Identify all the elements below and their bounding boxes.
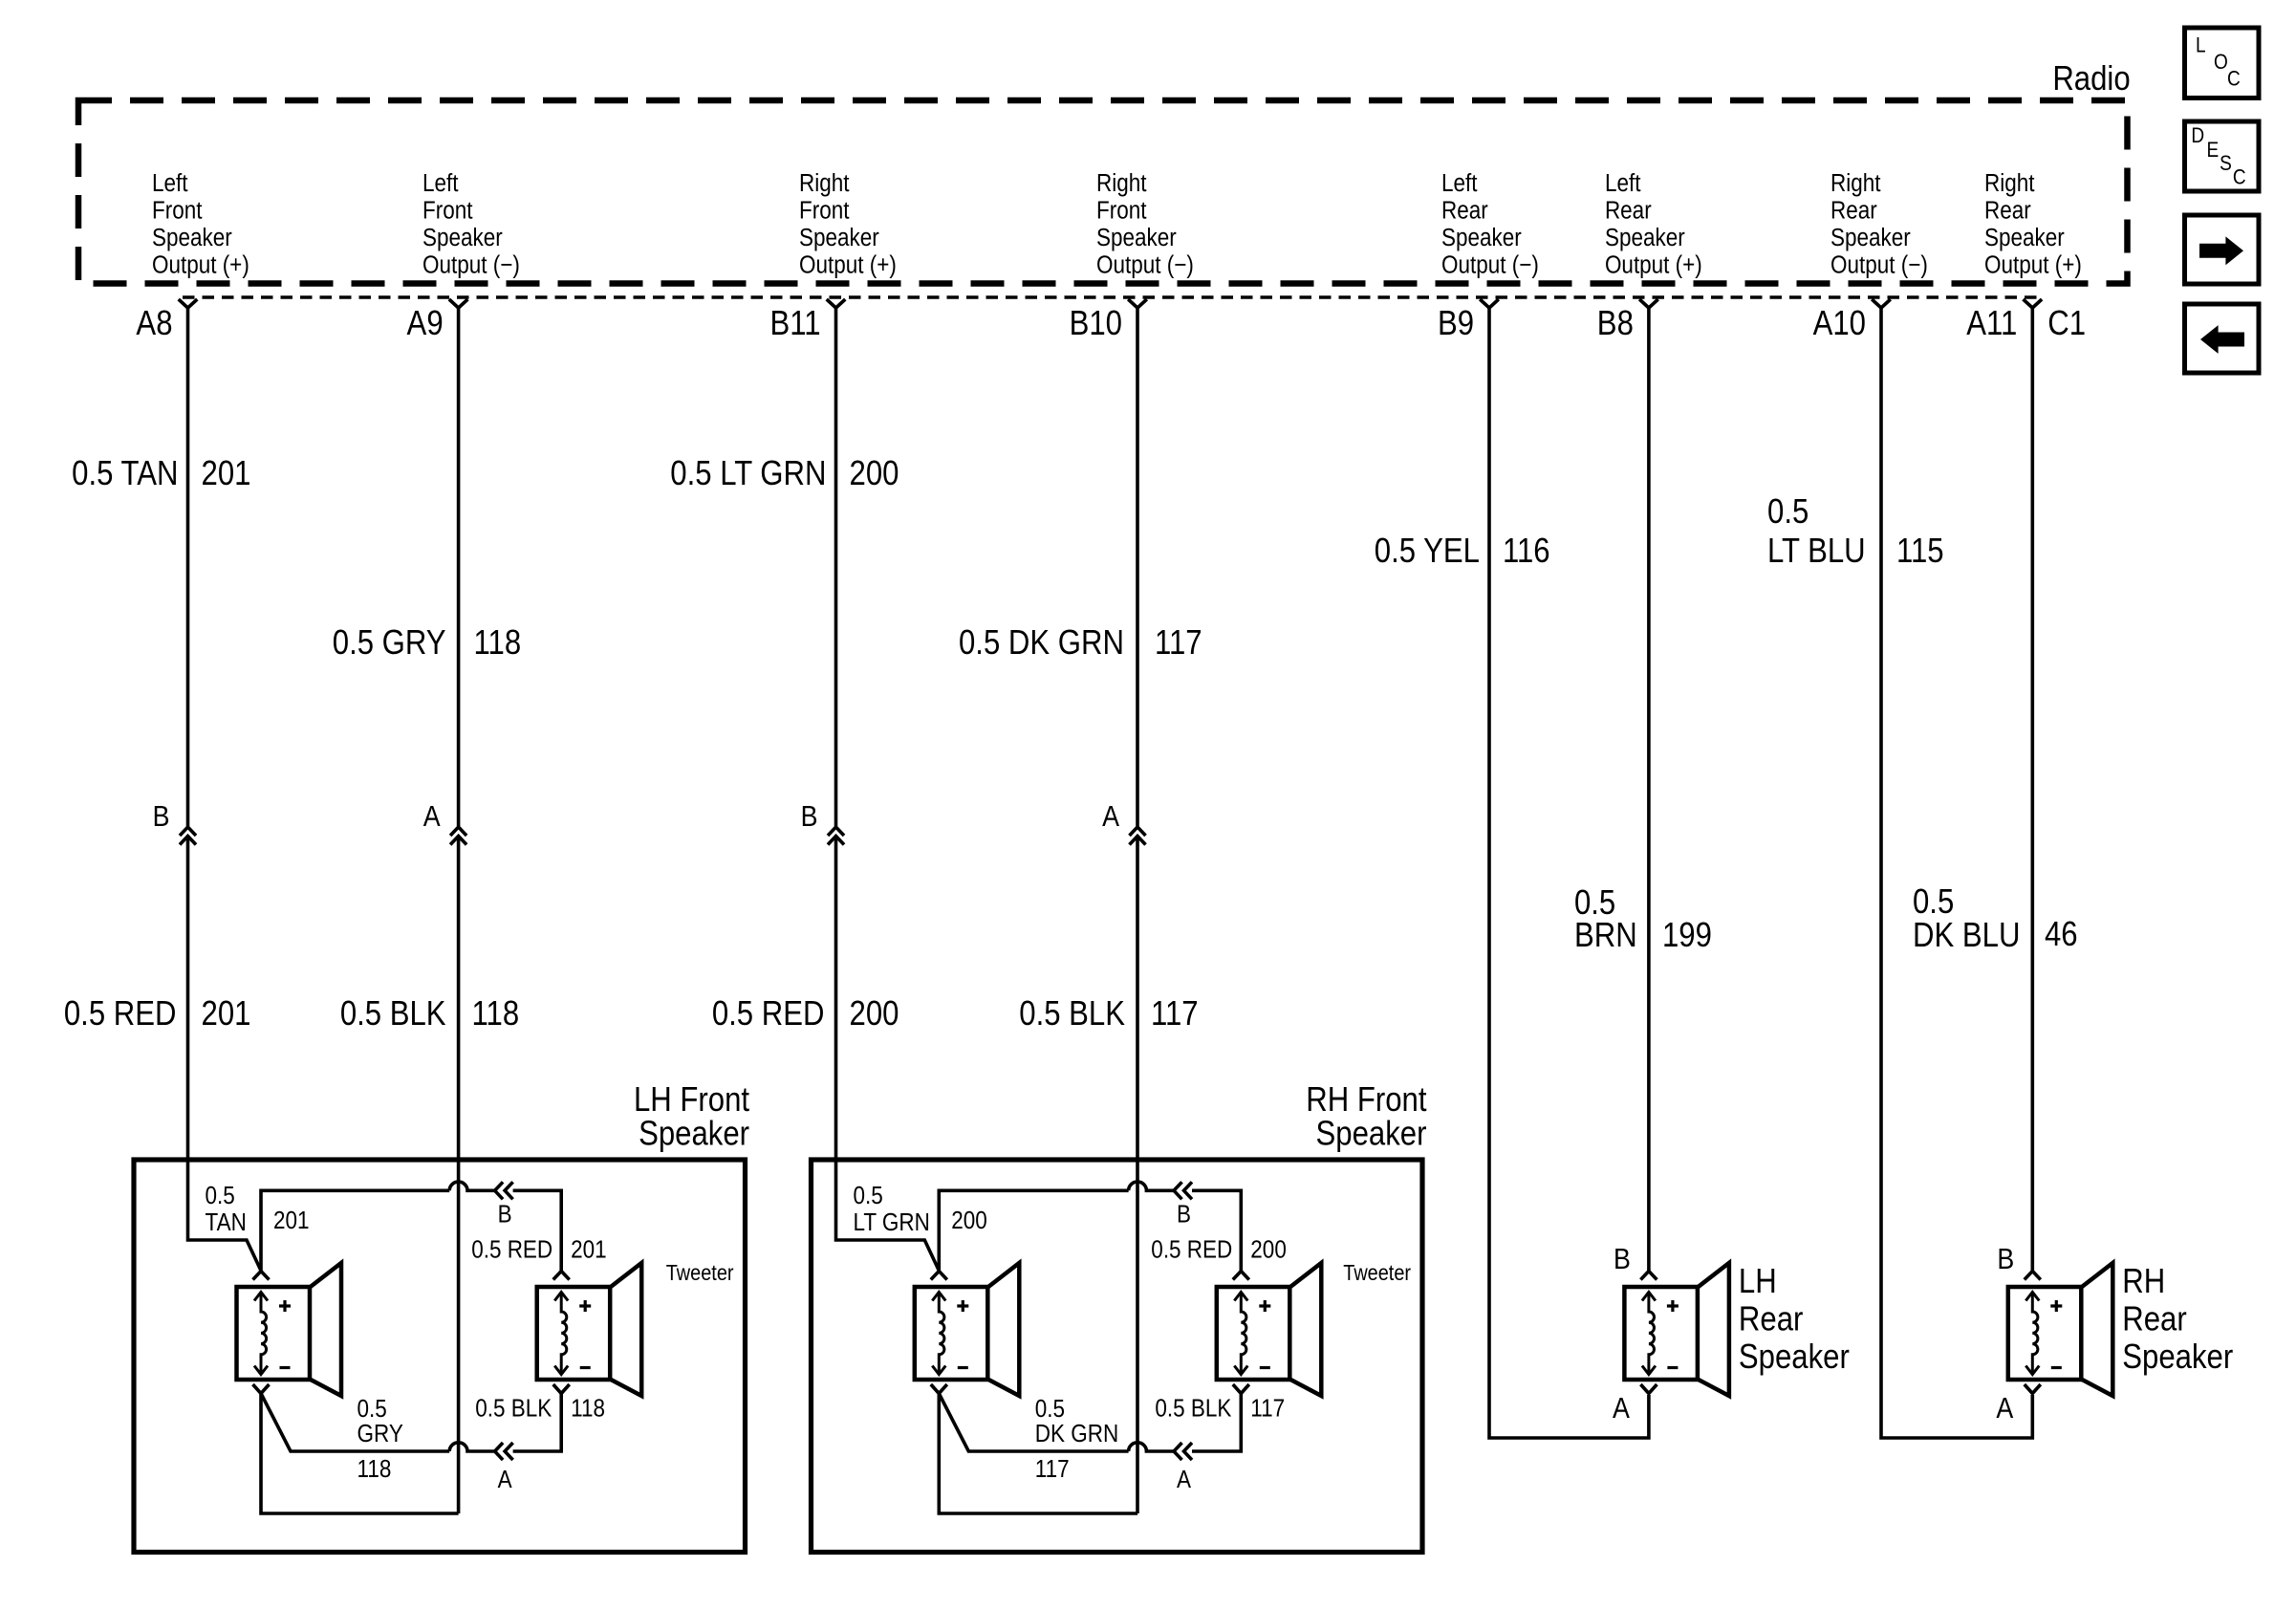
wire B10 lower segment (0.5 BLK 117) xyxy=(1136,838,1139,1513)
svg-text:B: B xyxy=(1177,1201,1191,1229)
wire B11 upper segment (0.5 LT GRN 200) xyxy=(834,308,838,827)
svg-text:Speaker: Speaker xyxy=(1739,1338,1850,1377)
wire B10 upper segment (0.5 DK GRN 117) xyxy=(1136,308,1139,827)
svg-text:117: 117 xyxy=(1250,1395,1285,1423)
svg-text:0.5 BLK: 0.5 BLK xyxy=(340,995,446,1033)
terminal B label (RH rear) xyxy=(1997,1243,2014,1275)
svg-text:DK GRN: DK GRN xyxy=(1035,1421,1118,1448)
svg-text:B: B xyxy=(801,800,818,833)
svg-text:RH: RH xyxy=(2122,1263,2165,1301)
svg-text:B9: B9 xyxy=(1438,305,1474,343)
pin A11 (fork terminal + label) xyxy=(1966,299,2042,343)
svg-text:0.5: 0.5 xyxy=(357,1396,387,1424)
label 0.5 YEL 116 xyxy=(1375,533,1550,571)
svg-text:46: 46 xyxy=(2045,916,2078,954)
svg-text:Speaker: Speaker xyxy=(152,225,232,252)
label 0.5 TAN 201 xyxy=(72,455,250,493)
svg-text:0.5: 0.5 xyxy=(1913,883,1954,922)
wire B11 lower segment (0.5 RED 200) xyxy=(836,838,940,1271)
svg-text:A8: A8 xyxy=(136,305,172,343)
label 0.5 TAN 201 (speaker + feed) xyxy=(206,1183,310,1237)
RH Rear Speaker xyxy=(2008,1263,2113,1396)
svg-text:0.5 LT GRN: 0.5 LT GRN xyxy=(670,455,826,493)
svg-text:A: A xyxy=(1177,1467,1192,1494)
svg-text:200: 200 xyxy=(850,455,899,493)
svg-text:Tweeter: Tweeter xyxy=(666,1261,734,1286)
pin A9 (fork terminal + label) xyxy=(407,299,468,343)
svg-text:Right: Right xyxy=(799,170,850,198)
wire A8 upper segment (0.5 TAN 201) xyxy=(186,308,190,827)
svg-text:Right: Right xyxy=(1984,170,2035,198)
icon button LOC xyxy=(2185,28,2260,98)
label Radio xyxy=(2052,60,2130,98)
svg-text:Rear: Rear xyxy=(2122,1300,2186,1338)
svg-text:Output (−): Output (−) xyxy=(422,251,520,279)
radio harness in-line connector (dotted line) xyxy=(183,295,2037,299)
svg-text:Output (+): Output (+) xyxy=(1605,251,1702,279)
radio pin description: Left Front Speaker Output (−) xyxy=(422,170,520,279)
in-line connector B on wire A8 xyxy=(153,800,196,844)
svg-text:Speaker: Speaker xyxy=(2122,1338,2233,1377)
svg-text:201: 201 xyxy=(202,995,251,1033)
RH Front Speaker box xyxy=(812,1160,1423,1553)
svg-text:GRY: GRY xyxy=(357,1421,403,1448)
svg-text:Speaker: Speaker xyxy=(1984,225,2065,252)
icon button right arrow xyxy=(2185,215,2260,284)
svg-text:0.5 BLK: 0.5 BLK xyxy=(475,1395,552,1423)
svg-text:D: D xyxy=(2191,124,2204,148)
svg-text:A: A xyxy=(1996,1392,2014,1425)
pin C1 label xyxy=(2047,305,2086,343)
svg-text:Rear: Rear xyxy=(1984,197,2031,225)
svg-text:DK BLU: DK BLU xyxy=(1913,917,2020,955)
svg-text:0.5 BLK: 0.5 BLK xyxy=(1155,1395,1231,1423)
radio pin description: Left Front Speaker Output (+) xyxy=(152,170,249,279)
wire speaker(−) to tweeter(−) with hop and in-line connector A xyxy=(261,1394,561,1494)
label LH Front Speaker xyxy=(634,1081,750,1153)
terminal B label (LH rear) xyxy=(1614,1243,1631,1275)
wire A9 upper segment (0.5 GRY 118) xyxy=(457,308,461,827)
svg-text:Rear: Rear xyxy=(1441,197,1488,225)
svg-text:117: 117 xyxy=(1035,1456,1070,1484)
terminal A label (RH rear) xyxy=(1996,1392,2014,1425)
svg-text:0.5 RED: 0.5 RED xyxy=(64,995,177,1033)
svg-text:0.5 YEL: 0.5 YEL xyxy=(1375,533,1480,571)
label 0.5 RED 200 (tweeter + feed) xyxy=(1151,1236,1287,1264)
terminal A label (LH rear) xyxy=(1613,1392,1631,1425)
svg-text:117: 117 xyxy=(1155,624,1202,663)
svg-text:A9: A9 xyxy=(407,305,444,343)
svg-text:B8: B8 xyxy=(1597,305,1634,343)
wire speaker(−) to tweeter(−) with hop and in-line connector A xyxy=(939,1394,1241,1494)
LH Rear Speaker xyxy=(1624,1263,1729,1396)
svg-text:0.5 RED: 0.5 RED xyxy=(471,1236,552,1264)
radio pin description: Left Rear Speaker Output (−) xyxy=(1441,170,1539,279)
svg-text:RH Front: RH Front xyxy=(1306,1081,1427,1120)
svg-text:Output (+): Output (+) xyxy=(1984,251,2082,279)
svg-text:Rear: Rear xyxy=(1605,197,1652,225)
svg-text:0.5: 0.5 xyxy=(1767,493,1809,532)
svg-text:Rear: Rear xyxy=(1739,1300,1803,1338)
svg-text:0.5 GRY: 0.5 GRY xyxy=(333,624,446,663)
svg-text:BRN: BRN xyxy=(1574,917,1637,955)
svg-text:Left: Left xyxy=(152,170,188,198)
svg-text:C: C xyxy=(2227,67,2241,91)
svg-text:0.5 RED: 0.5 RED xyxy=(1151,1236,1232,1264)
svg-text:116: 116 xyxy=(1503,533,1550,571)
svg-text:201: 201 xyxy=(571,1236,607,1264)
wire speaker(+) to tweeter(+) with hop and in-line connector B xyxy=(261,1182,561,1271)
svg-text:A10: A10 xyxy=(1813,305,1866,343)
svg-text:B11: B11 xyxy=(769,305,820,343)
tweeter in RH Front box xyxy=(1217,1263,1322,1396)
label 0.5 DK GRN 117 xyxy=(1035,1396,1118,1484)
icon button left arrow xyxy=(2185,304,2260,373)
wire speaker(−) return loop to LH Front pin 2 xyxy=(261,1394,459,1514)
svg-text:200: 200 xyxy=(850,995,899,1033)
svg-text:0.5: 0.5 xyxy=(206,1183,235,1210)
svg-text:Right: Right xyxy=(1830,170,1881,198)
radio (dashed box) xyxy=(78,100,2128,284)
label RH Front Speaker xyxy=(1306,1081,1427,1153)
wire A11/C1 (0.5 DK BLU 46) to RH rear speaker B terminal xyxy=(2031,308,2035,1273)
label 0.5 BLK 118 xyxy=(340,995,519,1033)
label 0.5 RED 200 xyxy=(712,995,899,1033)
svg-text:LT BLU: LT BLU xyxy=(1767,533,1866,571)
svg-text:Front: Front xyxy=(152,197,203,225)
svg-text:0.5 TAN: 0.5 TAN xyxy=(72,455,178,493)
svg-text:B: B xyxy=(498,1201,512,1229)
pin B8 (fork terminal + label) xyxy=(1597,299,1658,343)
svg-text:Output (+): Output (+) xyxy=(799,251,897,279)
wire A9 lower segment (0.5 BLK 118) xyxy=(457,838,461,1513)
speaker (woofer) in LH Front box xyxy=(237,1263,342,1396)
in-line connector A on wire B10 xyxy=(1102,800,1145,844)
pin A8 (fork terminal + label) xyxy=(136,299,197,343)
svg-text:Output (−): Output (−) xyxy=(1441,251,1539,279)
svg-text:Output (−): Output (−) xyxy=(1830,251,1928,279)
svg-text:Output (+): Output (+) xyxy=(152,251,249,279)
svg-text:Front: Front xyxy=(422,197,473,225)
svg-text:C1: C1 xyxy=(2047,305,2086,343)
svg-text:LH Front: LH Front xyxy=(634,1081,750,1120)
label 0.5 BRN 199 xyxy=(1574,884,1712,955)
svg-text:O: O xyxy=(2214,51,2228,75)
svg-text:118: 118 xyxy=(357,1456,392,1484)
svg-text:Rear: Rear xyxy=(1830,197,1877,225)
label 0.5 LT GRN 200 xyxy=(670,455,899,493)
svg-text:A: A xyxy=(1613,1392,1631,1425)
icon button DESC xyxy=(2185,121,2260,191)
svg-text:LT GRN: LT GRN xyxy=(854,1209,930,1237)
wire speaker(+) to tweeter(+) with hop and in-line connector B xyxy=(939,1182,1241,1271)
svg-text:TAN: TAN xyxy=(206,1209,247,1237)
pin B9 (fork terminal + label) xyxy=(1438,299,1499,343)
svg-text:Speaker: Speaker xyxy=(639,1115,749,1153)
svg-text:Speaker: Speaker xyxy=(1096,225,1177,252)
label 0.5 GRY 118 xyxy=(357,1396,403,1484)
label 0.5 LT BLU 115 xyxy=(1767,493,1944,571)
label 0.5 RED 201 xyxy=(64,995,251,1033)
label LH Rear Speaker xyxy=(1739,1263,1850,1377)
radio pin description: Right Front Speaker Output (+) xyxy=(799,170,897,279)
wire B8 (0.5 BRN 199) to LH rear speaker B terminal xyxy=(1647,308,1651,1273)
label 0.5 BLK 117 (tweeter −) xyxy=(1155,1395,1285,1423)
svg-text:115: 115 xyxy=(1896,533,1944,571)
svg-text:B10: B10 xyxy=(1070,305,1122,343)
svg-text:A: A xyxy=(1102,800,1120,833)
wire B9 (0.5 YEL 116) to LH rear speaker A terminal xyxy=(1489,308,1649,1439)
svg-text:A: A xyxy=(498,1467,513,1494)
radio pin description: Left Rear Speaker Output (+) xyxy=(1605,170,1702,279)
label 0.5 DK BLU 46 xyxy=(1913,883,2078,955)
label 0.5 GRY 118 xyxy=(333,624,521,663)
svg-text:Front: Front xyxy=(799,197,850,225)
pin B11 (fork terminal + label) xyxy=(769,299,845,343)
svg-text:Speaker: Speaker xyxy=(422,225,503,252)
LH Front Speaker box xyxy=(134,1160,746,1553)
wire A10 (0.5 LT BLU 115) to RH rear speaker A terminal xyxy=(1881,308,2032,1439)
svg-text:B: B xyxy=(153,800,170,833)
svg-text:Speaker: Speaker xyxy=(799,225,879,252)
svg-text:E: E xyxy=(2207,139,2220,163)
svg-text:B: B xyxy=(1997,1243,2014,1275)
label 0.5 DK GRN 117 xyxy=(959,624,1202,663)
svg-text:201: 201 xyxy=(202,455,251,493)
svg-text:Radio: Radio xyxy=(2052,60,2130,98)
pin B10 (fork terminal + label) xyxy=(1070,299,1147,343)
svg-text:Left: Left xyxy=(1441,170,1478,198)
svg-text:0.5: 0.5 xyxy=(854,1183,883,1210)
pin A10 (fork terminal + label) xyxy=(1813,299,1891,343)
svg-text:Right: Right xyxy=(1096,170,1147,198)
svg-text:C: C xyxy=(2233,165,2246,189)
tweeter in LH Front box xyxy=(537,1263,642,1396)
in-line connector A on wire A9 xyxy=(423,800,466,844)
svg-text:Speaker: Speaker xyxy=(1605,225,1685,252)
label Tweeter xyxy=(666,1261,734,1286)
in-line connector B on wire B11 xyxy=(801,800,844,844)
svg-text:Front: Front xyxy=(1096,197,1147,225)
svg-text:Left: Left xyxy=(422,170,459,198)
svg-text:A: A xyxy=(423,800,442,833)
svg-text:200: 200 xyxy=(1250,1236,1287,1264)
svg-text:0.5 RED: 0.5 RED xyxy=(712,995,825,1033)
svg-text:Speaker: Speaker xyxy=(1316,1115,1427,1153)
svg-text:Speaker: Speaker xyxy=(1441,225,1522,252)
svg-text:0.5: 0.5 xyxy=(1035,1396,1065,1424)
label 0.5 BLK 117 xyxy=(1019,995,1198,1033)
svg-text:200: 200 xyxy=(951,1207,987,1235)
svg-text:118: 118 xyxy=(474,624,522,663)
svg-text:117: 117 xyxy=(1151,995,1199,1033)
svg-text:201: 201 xyxy=(273,1207,310,1235)
svg-text:B: B xyxy=(1614,1243,1631,1275)
svg-text:Speaker: Speaker xyxy=(1830,225,1911,252)
radio pin description: Right Rear Speaker Output (+) xyxy=(1984,170,2082,279)
label 0.5 BLK 118 (tweeter −) xyxy=(475,1395,605,1423)
svg-text:0.5 DK GRN: 0.5 DK GRN xyxy=(959,624,1124,663)
speaker (woofer) in RH Front box xyxy=(915,1263,1020,1396)
svg-text:S: S xyxy=(2220,152,2232,176)
radio pin description: Right Front Speaker Output (−) xyxy=(1096,170,1194,279)
svg-text:118: 118 xyxy=(472,995,520,1033)
svg-text:118: 118 xyxy=(571,1395,605,1423)
label 0.5 RED 201 (tweeter + feed) xyxy=(471,1236,607,1264)
wire A8 lower segment (0.5 RED 201) xyxy=(188,838,262,1271)
svg-text:Output (−): Output (−) xyxy=(1096,251,1194,279)
svg-text:Tweeter: Tweeter xyxy=(1343,1261,1411,1286)
svg-text:A11: A11 xyxy=(1966,305,2017,343)
label RH Rear Speaker xyxy=(2122,1263,2233,1377)
wire speaker(−) return loop to RH Front pin 2 xyxy=(939,1394,1137,1514)
radio pin description: Right Rear Speaker Output (−) xyxy=(1830,170,1928,279)
svg-text:Left: Left xyxy=(1605,170,1641,198)
label Tweeter xyxy=(1343,1261,1411,1286)
label 0.5 LT GRN 200 (speaker + feed) xyxy=(854,1183,987,1237)
svg-text:LH: LH xyxy=(1739,1263,1777,1301)
svg-text:199: 199 xyxy=(1662,917,1712,955)
svg-text:L: L xyxy=(2196,33,2206,57)
svg-text:0.5 BLK: 0.5 BLK xyxy=(1019,995,1125,1033)
